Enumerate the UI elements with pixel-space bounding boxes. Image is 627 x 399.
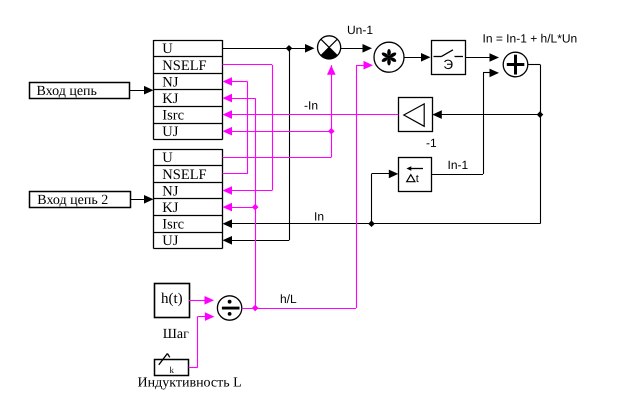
svg-text:KJ: KJ (162, 91, 178, 107)
svg-text:Вход цепь 2: Вход цепь 2 (37, 193, 108, 208)
svg-text:In-1: In-1 (448, 158, 469, 172)
svg-text:KJ: KJ (162, 200, 178, 216)
svg-text:Isrc: Isrc (162, 108, 184, 124)
svg-text:In = In-1 + h/L*Un: In = In-1 + h/L*Un (483, 32, 578, 46)
svg-text:In: In (314, 210, 324, 224)
svg-text:k: k (170, 365, 175, 375)
svg-text:t: t (416, 173, 419, 185)
svg-text:UJ: UJ (162, 124, 178, 140)
svg-text:-In: -In (304, 99, 318, 113)
svg-text:NSELF: NSELF (162, 58, 206, 74)
svg-text:U: U (162, 150, 173, 166)
svg-text:Isrc: Isrc (162, 217, 184, 233)
svg-text:Э: Э (443, 57, 453, 72)
svg-text:h/L: h/L (280, 292, 297, 306)
svg-text:Шаг: Шаг (163, 327, 189, 342)
svg-text:UJ: UJ (162, 233, 178, 249)
svg-text:Un-1: Un-1 (347, 23, 373, 37)
svg-text:Вход цепь: Вход цепь (37, 84, 97, 99)
svg-text:NSELF: NSELF (162, 167, 206, 183)
svg-text:-1: -1 (426, 136, 437, 150)
svg-text:h(t): h(t) (161, 291, 183, 307)
svg-text:Индуктивность L: Индуктивность L (138, 375, 242, 390)
svg-text:NJ: NJ (162, 183, 178, 199)
svg-text:U: U (162, 41, 173, 57)
svg-text:NJ: NJ (162, 74, 178, 90)
